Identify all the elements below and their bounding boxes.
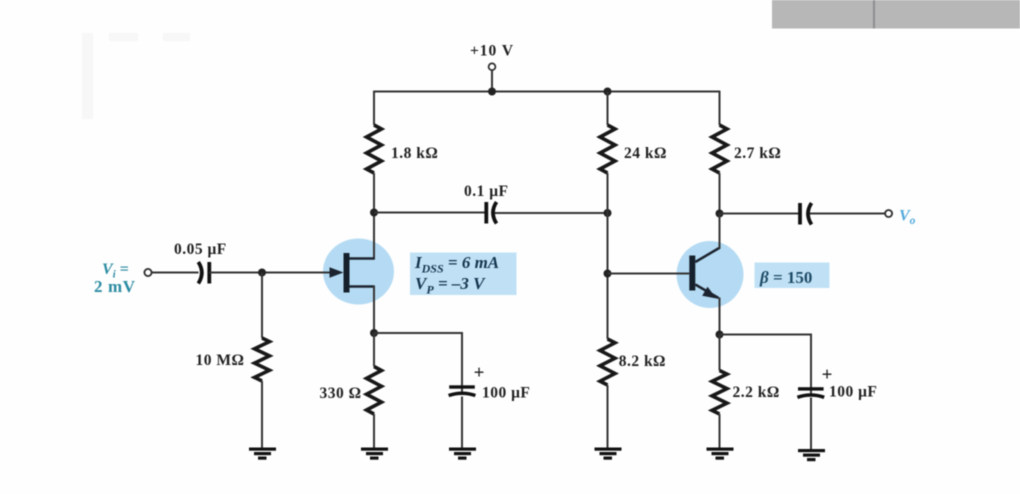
wire 1.8k top	[373, 91, 375, 125]
ground mid	[595, 448, 622, 460]
capacitor C 0.1uF	[486, 202, 496, 224]
BJT Q2	[689, 248, 720, 299]
node supply tap	[488, 88, 496, 96]
wire 10M top	[261, 273, 263, 339]
wire 0.1uF left	[374, 212, 485, 214]
node base divider	[604, 270, 612, 278]
resistor R 8.2k	[600, 339, 615, 385]
wire 330 top	[373, 333, 375, 367]
wire source to node	[373, 286, 375, 334]
wire 2.2k bottom	[719, 414, 721, 448]
wire emitter cap bottom	[810, 398, 812, 450]
svg-text:1.8 kΩ: 1.8 kΩ	[391, 145, 438, 162]
resistor R 1.8k	[367, 125, 382, 173]
svg-text:2.7 kΩ: 2.7 kΩ	[734, 145, 781, 162]
node input / 10M	[258, 269, 266, 277]
node emitter	[716, 331, 724, 339]
wire 1.8k bottom to drain	[373, 173, 375, 260]
JFET highlight circle	[323, 239, 394, 305]
node source	[370, 329, 378, 337]
wire 8.2k bottom	[607, 385, 609, 448]
wire 24k top	[607, 92, 609, 126]
wire 2.2k top	[719, 335, 721, 371]
resistor R 330	[367, 367, 382, 415]
svg-text:0.05 μF: 0.05 μF	[174, 241, 227, 258]
svg-text:+: +	[474, 363, 485, 384]
node drain	[370, 209, 378, 217]
ground source cap	[449, 448, 476, 460]
svg-text:2 mV: 2 mV	[94, 277, 136, 296]
header band	[772, 0, 1020, 29]
BJT highlight circle	[677, 241, 744, 308]
wire output left	[720, 213, 799, 215]
capacitor C 0.05uF	[198, 262, 209, 284]
svg-text:+: +	[822, 365, 833, 386]
wire base	[608, 273, 690, 275]
svg-text:100 μF: 100 μF	[829, 384, 877, 401]
wire output right	[810, 213, 885, 215]
wire top rail	[374, 91, 720, 93]
faint page artifacts	[82, 33, 190, 119]
wire emitter bypass branch	[720, 335, 812, 389]
resistor R 24k	[600, 125, 615, 173]
wire input left	[152, 272, 199, 274]
svg-text:100 μF: 100 μF	[482, 385, 530, 402]
ground emitter cap	[798, 449, 825, 461]
gate arrow	[330, 267, 344, 277]
ground 330	[361, 448, 388, 460]
node rail / 24k	[604, 88, 612, 96]
note box IDSS VP	[410, 253, 517, 297]
svg-text:2.2 kΩ: 2.2 kΩ	[733, 384, 780, 401]
svg-text:+10 V: +10 V	[470, 43, 514, 60]
svg-text:10 MΩ: 10 MΩ	[196, 352, 245, 369]
svg-text:8.2 kΩ: 8.2 kΩ	[619, 353, 666, 370]
label Vi = 2 mV	[94, 261, 136, 296]
resistor R 10M	[255, 338, 270, 381]
node collector	[716, 210, 724, 218]
wire 330 bottom	[373, 414, 375, 448]
node mid rail	[604, 209, 612, 217]
supply terminal +10V	[489, 63, 496, 91]
resistor R 2.2k	[712, 371, 727, 415]
JFET Q1	[344, 253, 375, 293]
svg-text:24 kΩ: 24 kΩ	[624, 145, 667, 162]
capacitor C 100uF source	[449, 384, 476, 396]
wire emitter	[719, 298, 721, 335]
ground 2.2k	[707, 448, 734, 460]
svg-text:0.1 μF: 0.1 μF	[464, 183, 509, 200]
wire 10M bottom	[261, 381, 263, 448]
wire 2.7k top	[719, 91, 721, 125]
svg-text:Vo: Vo	[899, 208, 916, 228]
capacitor C 100uF emitter	[797, 386, 824, 397]
wire mid column	[607, 173, 609, 339]
wire source bypass branch	[374, 333, 462, 387]
wire input right	[209, 272, 331, 274]
wire 0.1uF right	[495, 212, 608, 214]
svg-text:330 Ω: 330 Ω	[319, 385, 361, 402]
terminal Vi	[144, 269, 151, 276]
wire 2.7k bottom / collector node	[719, 173, 721, 249]
note box beta	[755, 263, 830, 289]
ground 10M	[249, 448, 276, 460]
svg-text:β = 150: β = 150	[759, 268, 812, 287]
resistor R 2.7k	[712, 125, 727, 173]
terminal Vo	[885, 210, 892, 217]
wire source cap bottom	[461, 397, 463, 449]
wire collector	[719, 214, 721, 249]
capacitor C out	[800, 203, 812, 225]
